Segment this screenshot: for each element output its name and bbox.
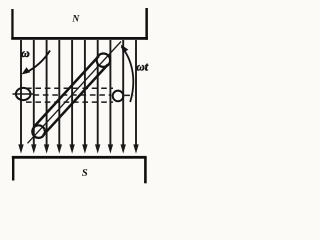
svg-text:ω: ω [21, 46, 30, 60]
S pole magnet right side [144, 157, 147, 183]
rotating frame body edge upper-left [34, 56, 99, 127]
svg-text:S: S [82, 168, 88, 179]
field line 1 arrowhead [18, 144, 23, 153]
svg-text:N: N [71, 14, 80, 24]
field line 3 [46, 40, 48, 146]
omega-t arc arrowhead [121, 45, 129, 54]
field line 9 arrowhead [121, 144, 126, 153]
horizontal frame center axis (dashed) [34, 94, 112, 96]
field line 7 arrowhead [95, 144, 100, 153]
field line 3 arrowhead [44, 144, 49, 153]
field line 6 arrowhead [82, 144, 87, 153]
paper background [0, 0, 162, 192]
field line 6 [84, 40, 86, 146]
horizontal frame right end circle [113, 91, 124, 102]
field line 5 [71, 40, 73, 146]
rotating frame body edge lower-right [43, 64, 108, 135]
field line 9 [122, 40, 124, 146]
field line 7 [97, 40, 99, 146]
horizontal frame top edge (dashed) [26, 87, 113, 89]
field line 5 arrowhead [69, 144, 74, 153]
omega-t angle arc [122, 47, 134, 103]
N pole magnet right side [145, 8, 148, 40]
svg-text:ωt: ωt [136, 60, 149, 74]
S pole face [12, 156, 147, 159]
omega rotation arrowhead [22, 67, 31, 74]
field line 2 [33, 40, 35, 146]
horizontal frame center axis right extension (dashed) [124, 94, 134, 96]
field line 4 [58, 40, 60, 146]
omega rotation arrow (curved) [26, 51, 51, 73]
horizontal frame bottom edge (dashed) [26, 101, 113, 103]
rotating frame center axis line [28, 42, 122, 144]
rotating frame upper end circle (white filled) [97, 54, 110, 67]
N pole face [11, 37, 148, 40]
horizontal frame left end circle [16, 88, 31, 100]
field line 10 arrowhead [133, 144, 138, 153]
S pole magnet left side [12, 157, 14, 181]
field line 1 [20, 40, 22, 146]
N pole magnet left side [11, 9, 13, 40]
rotating frame lower end circle [32, 125, 45, 138]
field line 8 [109, 40, 111, 146]
field line 8 arrowhead [108, 144, 113, 153]
horizontal frame left circle diameter line [13, 93, 34, 95]
field line 4 arrowhead [57, 144, 62, 153]
field line 10 [135, 40, 137, 146]
field line 2 arrowhead [31, 144, 36, 153]
